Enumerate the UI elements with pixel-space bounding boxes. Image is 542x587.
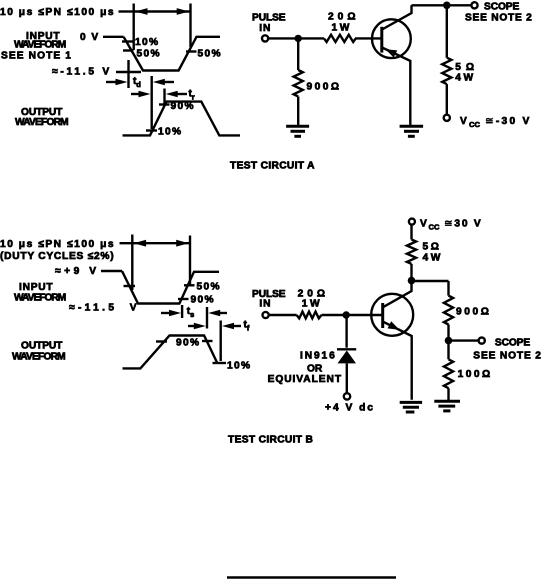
label: 5 ohm 4 W (A)	[455, 62, 479, 84]
wire: input waveform B trace	[122, 271, 219, 304]
svg-text:50%: 50%	[197, 282, 221, 293]
svg-text:90%: 90%	[176, 338, 200, 349]
resistor 900 ohm (circuit B)	[444, 296, 453, 325]
wire: junction to scope terminal A	[447, 4, 472, 6]
ground (base resistor, circuit A)	[286, 126, 309, 136]
svg-text:90%: 90%	[191, 295, 215, 306]
wire: base junction down to 900 ohm A	[297, 38, 299, 70]
svg-text:10%: 10%	[227, 361, 251, 372]
svg-text:OR: OR	[307, 364, 323, 375]
ground (emitter, circuit B)	[400, 402, 422, 412]
resistor 20 ohm 1 W (circuit A)	[324, 35, 356, 42]
svg-text:100Ω: 100Ω	[458, 369, 493, 380]
svg-text:PULSE: PULSE	[252, 13, 286, 24]
wire: PW dimension line with outward arrows B	[132, 240, 190, 247]
node: tr right tick	[163, 89, 165, 107]
node: pulse input terminal B	[263, 312, 269, 318]
node: tf right tick	[219, 321, 221, 362]
wire: junction to resistor 20ohm A	[298, 37, 324, 39]
svg-text:50%: 50%	[198, 49, 222, 60]
node: PW dimension left tick A	[132, 4, 134, 51]
svg-text:5Ω: 5Ω	[423, 242, 442, 253]
svg-text:50%: 50%	[137, 49, 161, 60]
node: ts right tick	[206, 307, 208, 329]
node: 50% tick on input A falling edge	[123, 49, 134, 51]
wire: td right arrow	[153, 79, 174, 86]
wire: tr right arrow	[166, 91, 187, 98]
wire: tf left arrow	[188, 323, 206, 330]
wire: pulse input to resistor 20 ohm B	[269, 314, 297, 316]
wire: tf right arrow	[222, 323, 241, 330]
node: scope terminal B	[479, 338, 485, 344]
node: 50% tick on input B rising edge	[184, 284, 195, 286]
node: 50% tick on input A rising edge	[186, 50, 197, 52]
wire: -11.5 V leader line	[116, 71, 141, 73]
wire: scope junction down to 100 ohm B	[447, 344, 449, 360]
label: INPUT WAVEFORM SEE NOTE 1	[1, 31, 72, 62]
wire: junction to transistor base B	[346, 314, 383, 316]
svg-text:1 W: 1 W	[332, 23, 350, 34]
wire: divider top down to 900 ohm B	[447, 281, 449, 296]
svg-text:SEE NOTE 2: SEE NOTE 2	[473, 351, 542, 362]
node: scope terminal A	[471, 2, 477, 8]
svg-text:1 W: 1 W	[302, 299, 320, 310]
node: 90% tick on output B rising edge	[156, 340, 167, 342]
resistor 900 ohm (circuit A)	[294, 70, 303, 96]
svg-text:+4 V dc: +4 V dc	[325, 403, 375, 414]
wire: leader from spec text to PW dimension A	[119, 10, 134, 12]
node: 90% tick on output B falling edge	[202, 340, 213, 342]
node: +4 V dc terminal	[344, 393, 350, 399]
wire: input waveform A trace	[124, 37, 220, 71]
label: 5 ohm 4 W (B)	[423, 242, 442, 264]
label: OUTPUT WAVEFORM B	[12, 341, 65, 363]
svg-text:≈+9 V: ≈+9 V	[55, 266, 100, 277]
svg-text:4 W: 4 W	[455, 73, 473, 84]
svg-text:SCOPE: SCOPE	[495, 337, 530, 348]
label: 20 ohm 1 W (B)	[298, 289, 330, 310]
svg-text:WAVEFORM: WAVEFORM	[14, 293, 66, 304]
label: OUTPUT WAVEFORM A	[15, 107, 68, 128]
wire: junction to scope terminal B	[449, 339, 479, 341]
wire: 100 ohm to ground B	[447, 388, 449, 400]
wire: 900 ohm to ground A	[297, 97, 299, 125]
node: junction dot base node B	[343, 311, 350, 318]
node: 90% tick on input B rising edge	[178, 298, 189, 300]
label: SCOPE SEE NOTE 2 (B)	[473, 337, 542, 361]
node: PW dimension left tick B	[131, 235, 133, 291]
svg-text:SCOPE: SCOPE	[484, 2, 519, 13]
wire: resistor to collector junction B	[410, 264, 412, 278]
wire: collector junction to divider top B	[412, 280, 449, 282]
svg-text:90%: 90%	[171, 101, 195, 112]
node: VCC terminal A	[444, 115, 450, 121]
resistor 100 ohm (circuit B)	[444, 359, 453, 388]
svg-text:TEST CIRCUIT B: TEST CIRCUIT B	[228, 435, 313, 446]
svg-text:10 μs ≤PN ≤100 μs: 10 μs ≤PN ≤100 μs	[0, 239, 115, 250]
diode D1 1N916 (anode triangle)	[338, 351, 357, 364]
svg-text:OUTPUT: OUTPUT	[21, 341, 63, 352]
node: VCC terminal B	[409, 219, 415, 225]
node: PW dimension right tick B	[189, 236, 191, 286]
resistor 5 ohm 4 W (circuit A)	[442, 58, 451, 84]
svg-text:≈-11.5 V: ≈-11.5 V	[52, 67, 112, 78]
horizontal rule at page bottom	[227, 576, 396, 578]
svg-text:WAVEFORM: WAVEFORM	[14, 40, 66, 51]
transistor Q1 PNP (circuit A)	[372, 5, 412, 125]
node: ts left tick	[181, 305, 183, 318]
svg-text:WAVEFORM: WAVEFORM	[15, 117, 68, 128]
svg-text:IN: IN	[259, 23, 271, 34]
ground (emitter, circuit A)	[400, 126, 424, 136]
node: td left tick	[127, 60, 129, 88]
svg-text:10%: 10%	[135, 37, 159, 48]
wire: tr left arrow	[131, 91, 151, 98]
wire: 900 ohm to scope junction B	[447, 325, 449, 339]
node: 10% tick on input A falling edge	[122, 40, 133, 42]
ground (divider, circuit B)	[434, 401, 460, 411]
wire: 0 V leader line	[103, 36, 124, 38]
label: IN916 OR EQUIVALENT	[268, 351, 342, 386]
svg-text:≈-11.5 V: ≈-11.5 V	[69, 303, 140, 314]
resistor 5 ohm 4 W (circuit B)	[407, 240, 416, 264]
svg-text:SEE NOTE 2: SEE NOTE 2	[465, 13, 533, 24]
wire: VCC terminal to resistor 5 ohm B	[410, 225, 412, 240]
svg-text:10 μs ≤PN ≤100 μs: 10 μs ≤PN ≤100 μs	[0, 7, 115, 18]
label: INPUT WAVEFORM B	[14, 282, 66, 304]
label: SCOPE SEE NOTE 2 (A)	[465, 2, 533, 24]
wire: diode to +4 V terminal	[346, 363, 348, 393]
node: junction dot collector node A	[443, 2, 451, 10]
wire: collector rail to scope junction A	[412, 4, 447, 6]
wire: +9 V leader / top level line B	[101, 270, 122, 272]
node: 90% tick on output A	[159, 103, 170, 105]
resistor 20 ohm 1 W (circuit B)	[297, 312, 322, 319]
svg-text:IN916: IN916	[300, 351, 337, 362]
node: junction dot base node A	[295, 35, 302, 42]
svg-text:0 V: 0 V	[80, 32, 100, 43]
svg-text:900Ω: 900Ω	[307, 82, 342, 93]
wire: td left arrow	[106, 79, 128, 86]
label: PULSE IN (circuit A)	[252, 13, 286, 35]
svg-text:SEE NOTE 1: SEE NOTE 1	[1, 51, 72, 62]
wire: output waveform B trace	[123, 336, 218, 369]
wire: ts left arrow	[161, 310, 181, 317]
svg-text:10%: 10%	[158, 127, 182, 138]
node: 50% tick on input B falling edge	[124, 285, 136, 287]
svg-text:20Ω: 20Ω	[328, 12, 360, 23]
node: junction dot collector node B	[408, 277, 416, 285]
transistor Q2 NPN (circuit B)	[371, 283, 413, 400]
node: PW dimension right tick A	[189, 4, 191, 48]
wire: pulse input to junction A	[268, 37, 296, 39]
svg-text:INPUT: INPUT	[19, 282, 53, 293]
node: pulse input terminal A	[262, 35, 268, 41]
wire: PW dimension line with outward arrows A	[134, 8, 191, 15]
svg-text:WAVEFORM: WAVEFORM	[12, 352, 65, 363]
wire: junction down to resistor 5 ohm A	[446, 5, 448, 57]
wire: ts right arrow	[208, 310, 227, 317]
svg-text:(DUTY CYCLES ≤2%): (DUTY CYCLES ≤2%)	[0, 251, 114, 262]
wire: resistor to transistor base A	[355, 37, 382, 39]
label: PULSE IN (circuit B)	[252, 289, 286, 310]
svg-text:EQUIVALENT: EQUIVALENT	[268, 374, 342, 385]
node: junction dot scope node B	[445, 337, 453, 345]
svg-text:4 W: 4 W	[423, 253, 441, 264]
diode D1 1N916 (cathode bar)	[337, 348, 356, 350]
wire: output waveform A trace	[123, 102, 241, 136]
svg-text:IN: IN	[259, 299, 271, 310]
node: 10% tick on output A	[146, 129, 157, 131]
wire: base junction down to diode B	[345, 318, 347, 348]
svg-text:900Ω: 900Ω	[456, 307, 492, 318]
wire: leader from spec text to PW dimension B	[120, 242, 133, 244]
svg-text:5Ω: 5Ω	[455, 62, 479, 73]
wire: resistor to VCC terminal A	[446, 84, 448, 115]
svg-text:TEST CIRCUIT A: TEST CIRCUIT A	[230, 161, 315, 172]
node: td right tick	[150, 76, 152, 129]
node: 10% tick on output B falling edge	[213, 362, 227, 364]
label: 20 ohm 1 W (A)	[328, 12, 360, 34]
wire: resistor to base junction B	[321, 314, 344, 316]
